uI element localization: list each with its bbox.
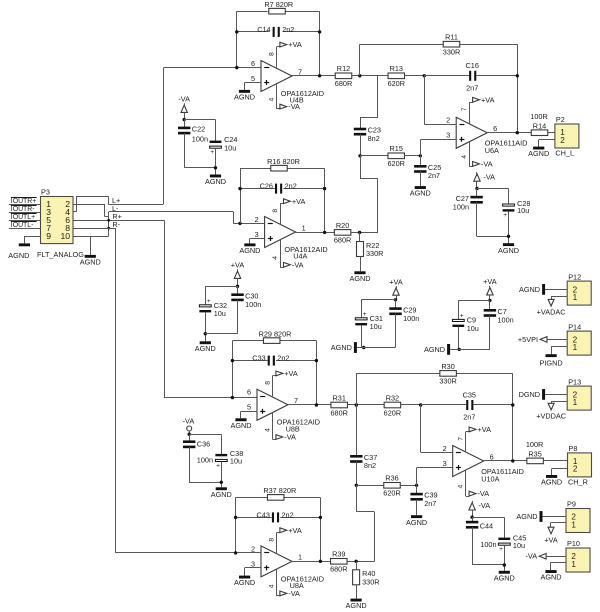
- svg-text:1: 1: [573, 343, 578, 352]
- wire P14 pin2: [547, 339, 567, 341]
- svg-text:IOUTR-: IOUTR-: [11, 206, 35, 213]
- capacitor C28 10u: [503, 199, 531, 219]
- wire R40 top stem: [356, 561, 358, 570]
- wire C36 top stem: [189, 434, 191, 441]
- supply +VA flag (U4B pin 8): [268, 40, 302, 68]
- junction R39/R40 node: [354, 560, 357, 563]
- svg-text:4: 4: [264, 428, 271, 432]
- svg-text:R35: R35: [528, 450, 541, 459]
- svg-text:100R: 100R: [530, 112, 547, 121]
- capacitor C30 100n: [231, 292, 261, 309]
- ground AGND below R40: [346, 599, 367, 611]
- op-amp U4A OPA1612AID: [255, 215, 328, 261]
- wire U4B output: [292, 75, 335, 77]
- connector P10: [566, 539, 590, 572]
- svg-text:AGND: AGND: [498, 246, 519, 255]
- wire C9 bottom: [458, 327, 460, 350]
- connector P9: [566, 500, 590, 533]
- wire feedback left vertical (U4B): [236, 11, 238, 67]
- capacitor C24 10u: [210, 135, 238, 156]
- net label L-: [112, 204, 119, 213]
- wire net R+ vertical to U8B: [164, 220, 257, 397]
- svg-text:620R: 620R: [384, 408, 401, 417]
- svg-text:2n7: 2n7: [428, 171, 440, 180]
- wire feedback right vertical (U4B): [319, 11, 321, 76]
- svg-text:AGND: AGND: [519, 285, 540, 294]
- resistor R13 620R: [388, 64, 405, 88]
- svg-text:10u: 10u: [513, 541, 525, 550]
- wire L- drop from pin6 row: [108, 212, 110, 236]
- ground AGND at P10: [540, 570, 561, 582]
- wire C28 branch: [477, 189, 509, 205]
- ground AGND at U4B pin5: [234, 90, 255, 102]
- wire P3 pin2 stub: [73, 204, 105, 206]
- junction +VA C31/C29: [394, 298, 397, 301]
- wire C7 stem top: [489, 300, 491, 310]
- wire R15 right: [404, 155, 420, 157]
- capacitor C35 2n7: [463, 390, 476, 421]
- svg-text:2: 2: [446, 116, 450, 125]
- wire net L+ vertical riser: [163, 68, 165, 204]
- svg-text:3: 3: [255, 230, 259, 239]
- wire R15 left: [360, 155, 388, 157]
- node A (R13/C16/pin2): [423, 74, 426, 77]
- svg-text:+VA: +VA: [288, 40, 302, 49]
- wire C24 bottom: [215, 148, 217, 174]
- svg-text:6: 6: [251, 59, 255, 68]
- svg-text:+: +: [499, 546, 503, 553]
- svg-text:+VA: +VA: [284, 369, 298, 378]
- ground AGND at P2: [528, 147, 549, 159]
- svg-text:R39: R39: [332, 550, 345, 559]
- svg-text:+VA: +VA: [389, 278, 403, 287]
- junction -VA C44/C45: [470, 516, 473, 519]
- wire P2 pin2 to AGND: [539, 140, 555, 147]
- wire R36 right: [400, 485, 416, 487]
- wire C14 row: [237, 31, 320, 33]
- svg-text:4: 4: [272, 256, 279, 260]
- svg-text:100n: 100n: [453, 202, 469, 211]
- wire C31 bottom: [361, 325, 363, 348]
- svg-text:R31: R31: [333, 393, 346, 402]
- wire net R- vertical to U8A: [115, 228, 261, 553]
- svg-text:100n: 100n: [192, 135, 208, 144]
- value label 100n (C36) repositioned: [0, 0, 1, 1]
- ground DGND bar at P13: [519, 389, 546, 400]
- svg-text:+: +: [460, 313, 464, 320]
- wire U8A feedback right vertical: [320, 497, 322, 561]
- wire C29 stem top: [395, 300, 397, 309]
- wire C7 bottom: [489, 316, 491, 350]
- svg-text:C16: C16: [466, 61, 479, 70]
- wire C30 stem top: [237, 286, 239, 294]
- junction C22/C24 ground node: [214, 166, 217, 169]
- wire C37 to R36 node: [356, 462, 358, 486]
- net label IOUTR- with overline: [11, 206, 37, 214]
- wire -VA stem (C36): [189, 431, 191, 434]
- svg-text:IOUTL+: IOUTL+: [11, 214, 35, 221]
- wire P3 pin7 stub: [9, 228, 41, 230]
- supply -VA flag (C22 block): [178, 95, 190, 113]
- svg-text:6: 6: [493, 124, 497, 133]
- ground AGND below C25: [410, 186, 431, 198]
- junction U8A pin2 node: [234, 551, 237, 554]
- ground AGND below C45: [494, 571, 515, 583]
- svg-text:IOUTL-: IOUTL-: [11, 222, 34, 229]
- svg-text:U6A: U6A: [485, 146, 499, 155]
- svg-text:-VA: -VA: [292, 260, 304, 269]
- wire R31 to R32: [348, 404, 385, 406]
- svg-text:AGND: AGND: [424, 345, 445, 354]
- wire R7 feedback top rail: [237, 11, 320, 13]
- op-amp U6A OPA1611AID: [446, 116, 527, 156]
- wire C22 top stem: [184, 120, 186, 128]
- wire C9 branch: [458, 300, 490, 319]
- wire C28 bottom: [508, 211, 510, 243]
- supply -VA flag (U10A pin 4): [458, 470, 490, 498]
- wire -VA stem (C22): [184, 112, 186, 119]
- wire C39 stem: [416, 485, 418, 494]
- svg-text:10u: 10u: [224, 143, 236, 152]
- ground AGND below R22: [349, 271, 370, 283]
- wire R36 left: [356, 485, 384, 487]
- capacitor C23 8n2: [354, 126, 381, 143]
- wire R39 to R40 node: [347, 561, 374, 563]
- svg-text:8: 8: [264, 381, 271, 385]
- junction R20/R22 node: [358, 231, 361, 234]
- svg-text:100n: 100n: [498, 316, 514, 325]
- svg-text:+: +: [216, 462, 220, 469]
- wire C37 node down-jog to R39 node: [356, 485, 374, 561]
- wire C16 row: [424, 75, 517, 77]
- connector P8 CH_R: [568, 444, 592, 486]
- resistor R31 680R: [330, 393, 347, 417]
- supply +VA flag (U6A pin 7): [461, 95, 495, 123]
- wire C44 top stem: [472, 517, 474, 522]
- svg-text:2n2: 2n2: [282, 25, 294, 34]
- capacitor C37 8n2: [350, 453, 377, 470]
- svg-text:P8: P8: [569, 444, 578, 453]
- svg-text:-VA: -VA: [481, 160, 493, 169]
- connector P14: [567, 322, 591, 355]
- wire P3 pin10 to ground: [73, 236, 109, 255]
- capacitor C25 2n7: [414, 163, 441, 180]
- wire C33 row: [232, 360, 316, 362]
- svg-text:2n2: 2n2: [282, 510, 294, 519]
- wire pin2 jog down to R+ row: [105, 204, 109, 220]
- svg-text:-VA: -VA: [284, 433, 296, 442]
- svg-text:AGND: AGND: [331, 343, 352, 352]
- svg-text:2: 2: [251, 544, 255, 553]
- svg-text:R20: R20: [336, 221, 349, 230]
- resistor R35 100R: [527, 450, 544, 464]
- svg-text:AGND: AGND: [8, 251, 29, 260]
- capacitor C33 2n2: [252, 354, 289, 366]
- svg-text:7: 7: [461, 107, 468, 111]
- wire P3 pin8 row / net R- row: [73, 228, 115, 230]
- wire C22 bottom to rail: [184, 133, 215, 168]
- svg-text:2n2: 2n2: [277, 354, 289, 363]
- resistor R16 820R: [267, 157, 300, 171]
- wire +VA stem (C9): [489, 295, 491, 301]
- svg-text:-VA: -VA: [525, 552, 537, 561]
- svg-text:PIGND: PIGND: [540, 358, 563, 367]
- junction C33 left: [231, 359, 234, 362]
- ground AGND at U8B pin5: [230, 418, 251, 430]
- svg-text:AGND: AGND: [205, 177, 226, 186]
- capacitor C38 10u: [215, 449, 243, 469]
- wire +VA stem (C31): [396, 295, 398, 300]
- svg-text:AGND: AGND: [80, 258, 101, 267]
- svg-text:2: 2: [560, 136, 565, 145]
- junction -VA C27/C28: [475, 187, 478, 190]
- wire U4A feedback left vertical: [240, 168, 242, 223]
- supply -VA circle flag (C36 block): [183, 417, 195, 431]
- op-amp U4B OPA1612AID: [251, 59, 324, 105]
- junction C43 right: [319, 516, 322, 519]
- wire C36 bottom to rail: [189, 447, 221, 483]
- capacitor C45 10u: [498, 534, 526, 554]
- junction C16 right: [516, 74, 519, 77]
- svg-text:6: 6: [247, 388, 251, 397]
- connector P2 CH_L: [555, 115, 579, 157]
- svg-text:P10: P10: [567, 539, 580, 548]
- wire R16 top rail: [240, 168, 325, 170]
- svg-text:100n: 100n: [480, 540, 496, 549]
- svg-text:AGND: AGND: [211, 490, 232, 499]
- ground AGND bar (C31 block): [331, 342, 357, 353]
- net label R-: [112, 220, 120, 229]
- wire R12 to R13: [352, 75, 388, 77]
- wire U10A output: [484, 460, 527, 462]
- wire C24 branch: [184, 120, 215, 142]
- svg-text:+VA: +VA: [483, 277, 497, 286]
- svg-text:AGND: AGND: [540, 573, 561, 582]
- svg-text:+VA: +VA: [288, 526, 302, 535]
- wire C30 bottom to rail: [205, 300, 237, 334]
- wire C37 stem top: [356, 405, 358, 456]
- wire U8A output: [292, 561, 331, 563]
- svg-text:5: 5: [251, 74, 255, 83]
- junction R36/C39 node: [415, 484, 418, 487]
- svg-text:R13: R13: [390, 64, 403, 73]
- wire C43 row: [236, 517, 321, 519]
- svg-text:1: 1: [302, 223, 306, 232]
- svg-text:+: +: [210, 149, 214, 156]
- junction U8B pin6 node: [231, 396, 234, 399]
- svg-text:330R: 330R: [439, 377, 456, 386]
- wire P3 pin5 stub: [9, 220, 41, 222]
- svg-text:4: 4: [268, 97, 275, 101]
- wire U4A output: [296, 232, 335, 234]
- svg-text:AGND: AGND: [195, 344, 216, 353]
- junction C27/C28 ground node: [507, 235, 510, 238]
- svg-text:AGND: AGND: [239, 246, 260, 255]
- svg-text:+: +: [363, 311, 367, 318]
- wire C23 to R15 node: [360, 134, 362, 156]
- resistor R32 620R: [384, 393, 401, 417]
- junction C26 left: [238, 187, 241, 190]
- svg-text:+VA: +VA: [544, 535, 558, 544]
- wire U4A feedback right vertical: [324, 168, 326, 232]
- resistor R22 330R: [357, 241, 384, 258]
- wire C38 bottom: [221, 462, 223, 488]
- svg-text:680R: 680R: [335, 79, 352, 88]
- wire R36 node to U10A pin3: [417, 468, 453, 486]
- net label IOUTL- with overline: [11, 222, 37, 230]
- supply +VA flag at P9: [544, 527, 558, 544]
- wire C38 branch: [189, 434, 221, 454]
- svg-text:-VA: -VA: [288, 102, 300, 111]
- ground AGND below C24: [205, 175, 226, 187]
- junction U6A output node: [516, 131, 519, 134]
- svg-text:2n7: 2n7: [466, 83, 478, 92]
- svg-text:1: 1: [573, 398, 578, 407]
- resistor R39 680R: [330, 550, 347, 574]
- svg-text:P3: P3: [41, 188, 50, 197]
- wire R20 to R22 node: [351, 232, 378, 234]
- wire +VA stem (C32): [237, 278, 239, 286]
- svg-text:AGND: AGND: [349, 274, 370, 283]
- junction C31 ground node: [362, 346, 365, 349]
- svg-text:R11: R11: [445, 33, 458, 42]
- supply -VA flag (U8A pin 4): [268, 569, 300, 598]
- resistor R14 100R: [531, 121, 548, 135]
- svg-text:FLT_ANALOG: FLT_ANALOG: [37, 250, 84, 259]
- svg-text:R32: R32: [386, 393, 399, 402]
- resistor R40 330R: [353, 569, 380, 586]
- svg-text:10: 10: [60, 231, 70, 241]
- supply -VA flag (U6A pin 4): [461, 142, 493, 169]
- svg-text:AGND: AGND: [516, 512, 537, 521]
- svg-text:100n: 100n: [403, 314, 419, 323]
- supply -VA flag (U8B pin 4): [264, 413, 296, 442]
- wire P10 pin1 to AGND: [551, 562, 567, 570]
- wire C45 bottom: [504, 545, 506, 571]
- svg-text:C26: C26: [260, 182, 273, 191]
- svg-text:AGND: AGND: [230, 421, 251, 430]
- wire P3 pin1 stub: [9, 204, 41, 206]
- junction -VA C36/C38: [188, 433, 191, 436]
- ground AGND below C38: [211, 487, 232, 499]
- resistor R12 680R: [335, 64, 352, 88]
- svg-text:10u: 10u: [467, 324, 479, 333]
- wire -VA stem (C44): [472, 510, 474, 517]
- wire U8A feedback left vertical: [235, 497, 237, 553]
- svg-text:-VA: -VA: [178, 95, 190, 104]
- svg-text:R12: R12: [337, 64, 350, 73]
- supply -VA flag (C44 block): [469, 501, 490, 510]
- svg-text:7: 7: [458, 437, 465, 441]
- svg-text:3: 3: [251, 559, 255, 568]
- junction C35 right: [511, 403, 514, 406]
- svg-text:L-: L-: [112, 204, 119, 213]
- ground AGND at P3 pin10: [80, 255, 101, 267]
- supply +VA flag (U8B pin 8): [264, 369, 298, 397]
- resistor R30 330R: [439, 362, 456, 386]
- svg-text:100n: 100n: [197, 456, 213, 465]
- svg-text:+VDDAC: +VDDAC: [536, 412, 566, 421]
- svg-text:R16 820R: R16 820R: [267, 157, 300, 166]
- supply +VA flag (U8A pin 8): [268, 526, 302, 554]
- capacitor C26 2n2: [260, 182, 297, 194]
- wire U8B output: [288, 404, 331, 406]
- supply +VA flag (C31 block): [389, 278, 403, 296]
- net label L+: [112, 196, 120, 205]
- svg-text:1: 1: [573, 293, 578, 302]
- junction R12-R11 node: [358, 74, 361, 77]
- svg-text:330R: 330R: [362, 577, 379, 586]
- wire P14 pin1 to PIGND: [551, 346, 567, 354]
- capacitor C39 2n7: [410, 491, 437, 508]
- wire P3 pin4 up-jog (net L+): [73, 196, 163, 212]
- svg-text:7: 7: [294, 396, 298, 405]
- supply +VDDAC flag: [536, 403, 566, 420]
- svg-text:AGND: AGND: [410, 189, 431, 198]
- svg-text:-VA: -VA: [483, 172, 495, 181]
- ground AGND at P3 pin9: [8, 243, 30, 260]
- wire R15 node to U6A pin3: [420, 140, 456, 156]
- junction U4A output node: [323, 231, 326, 234]
- capacitor C32 10u: [199, 298, 227, 318]
- wire C32 branch: [205, 286, 237, 305]
- connector P3 header: [41, 188, 74, 244]
- wire C44 bottom to rail: [472, 527, 504, 565]
- svg-text:10u: 10u: [370, 322, 382, 331]
- ground AGND below C32: [195, 341, 216, 353]
- junction U4B pin6 node: [235, 66, 238, 69]
- svg-text:C44: C44: [480, 522, 493, 531]
- svg-text:8n2: 8n2: [364, 461, 376, 470]
- ground AGND below C39: [406, 515, 427, 527]
- capacitor C22 100n: [178, 125, 208, 144]
- svg-text:+VA: +VA: [478, 425, 492, 434]
- svg-text:DGND: DGND: [519, 390, 541, 399]
- wire -VA stem (C27): [476, 181, 478, 188]
- svg-text:-VA: -VA: [183, 417, 195, 426]
- svg-text:680R: 680R: [330, 565, 347, 574]
- capacitor C16 2n7: [466, 61, 479, 92]
- junction R32/C35 node: [419, 403, 422, 406]
- wire C29 bottom: [395, 314, 397, 348]
- svg-text:P13: P13: [568, 377, 581, 386]
- junction C44/C45 ground node: [503, 563, 506, 566]
- wire C27 top stem: [476, 189, 478, 198]
- wire ground rail (C31 block): [357, 347, 396, 349]
- svg-text:-VA: -VA: [479, 501, 491, 510]
- capacitor C7 100n: [484, 307, 514, 324]
- svg-text:R7 820R: R7 820R: [264, 0, 293, 9]
- wire C31 branch: [361, 300, 395, 318]
- ground AGND bar (C9 block): [424, 344, 450, 355]
- svg-text:AGND: AGND: [234, 93, 255, 102]
- supply -VA flag (U4B pin 4): [268, 84, 300, 111]
- svg-text:8: 8: [268, 538, 275, 542]
- junction C37/R36 node: [355, 484, 358, 487]
- capacitor C31 10u: [355, 311, 383, 331]
- svg-text:620R: 620R: [388, 79, 405, 88]
- ground AGND at U8A pin3: [234, 576, 255, 588]
- junction C33 right: [315, 359, 318, 362]
- wire P13 pin2: [545, 394, 567, 396]
- svg-text:2: 2: [443, 444, 447, 453]
- capacitor C29 100n: [389, 305, 419, 322]
- svg-text:+VA: +VA: [292, 197, 306, 206]
- svg-text:7: 7: [298, 67, 302, 76]
- wire R22 top stem: [359, 232, 361, 241]
- svg-text:R37 820R: R37 820R: [263, 486, 296, 495]
- op-amp U8A OPA1612AID: [251, 544, 324, 590]
